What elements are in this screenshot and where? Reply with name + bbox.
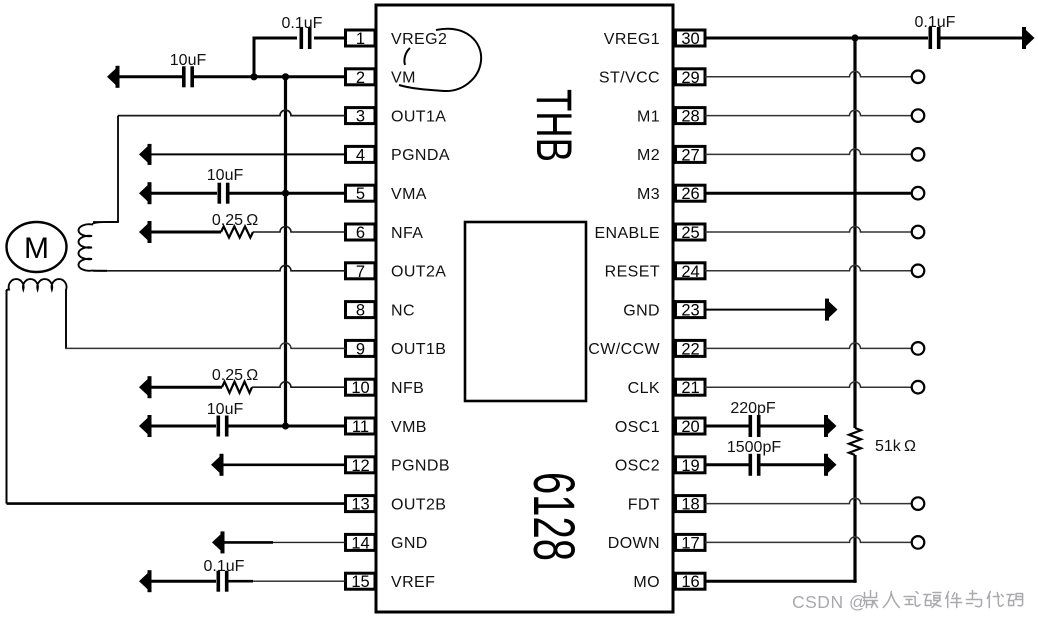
wire CLK with hop	[705, 382, 912, 388]
pin box 18	[676, 496, 706, 514]
ground G11 (pin23 GND)	[825, 299, 838, 321]
IC U1 THB6128 body	[376, 5, 673, 612]
pin box 17	[676, 534, 706, 552]
svg-text:NFA: NFA	[391, 225, 423, 242]
capacitor C1 0.1uF	[300, 27, 312, 49]
watermark glyph 件	[946, 592, 962, 608]
svg-text:13: 13	[351, 496, 369, 514]
svg-text:27: 27	[681, 146, 699, 164]
wire M3 plain crossing to terminal	[705, 192, 912, 195]
svg-text:10uF: 10uF	[207, 401, 244, 418]
wire G9 to C5	[152, 580, 217, 583]
junction node VMB / VM rail bottom	[282, 422, 289, 429]
wire coil B right vertical	[65, 289, 67, 348]
terminal CW/CCW	[912, 342, 925, 355]
svg-text:0.1uF: 0.1uF	[282, 15, 323, 32]
svg-text:6128: 6128	[521, 472, 586, 561]
ground G12 (OSC1 cap)	[824, 415, 837, 437]
svg-text:GND: GND	[623, 302, 660, 319]
wire coil B left vertical	[6, 290, 8, 504]
wire VM vertical rail	[284, 77, 287, 426]
pin box 7	[346, 263, 376, 281]
motor M1 circle	[7, 222, 67, 272]
wire C7 to ground G12	[761, 425, 825, 428]
annotation arc loop around VREG2/VM	[399, 29, 481, 91]
watermark glyph 嵌	[864, 591, 878, 608]
wire GND pin23 to ground	[705, 309, 825, 311]
wire M2 with hop over right rail	[705, 149, 912, 155]
wire G4 to R1	[152, 231, 222, 234]
pin box 20	[676, 418, 706, 436]
pin box 2	[346, 69, 376, 87]
wire OSC2 to C8	[705, 463, 749, 466]
svg-text:CLK: CLK	[628, 380, 660, 397]
wire DOWN with hop	[705, 537, 912, 543]
pin box 9	[346, 340, 376, 358]
wire ST/VCC with hop over right rail	[705, 71, 912, 77]
wire C4 to pin11 VMB	[229, 425, 346, 428]
pin box 13	[346, 496, 376, 514]
svg-text:M1: M1	[637, 108, 660, 125]
pin box 11	[346, 418, 376, 436]
ground G13 (OSC2 cap)	[824, 454, 837, 476]
svg-text:26: 26	[681, 185, 699, 203]
wire PGNDA to ground	[152, 153, 346, 155]
pin box 6	[346, 224, 376, 242]
wire PGNDB to ground	[224, 463, 346, 466]
ground G1 (VM decoupling)	[107, 66, 120, 88]
pin box 22	[676, 340, 706, 358]
pin box 8	[346, 302, 376, 320]
pin box 24	[676, 263, 706, 281]
svg-text:VMB: VMB	[391, 419, 427, 436]
ground G7 (PGNDB)	[211, 454, 224, 476]
svg-text:RESET: RESET	[605, 264, 660, 281]
wire GND thin part	[273, 541, 346, 543]
wire C5 to pin15 VREF	[253, 580, 346, 582]
svg-text:4: 4	[356, 146, 365, 164]
wire right vertical rail lower	[853, 455, 856, 583]
wire OSC1 to C7	[705, 425, 749, 428]
svg-text:CSDN @: CSDN @	[792, 592, 867, 612]
svg-text:18: 18	[681, 496, 699, 514]
svg-text:20: 20	[681, 418, 699, 436]
pin box 14	[346, 534, 376, 552]
svg-text:21: 21	[681, 379, 699, 397]
wire coil A bottom hook	[93, 270, 107, 272]
ground G6 (VMB cap)	[139, 415, 152, 437]
svg-text:VMA: VMA	[391, 186, 427, 203]
svg-text:PGNDB: PGNDB	[391, 458, 450, 475]
svg-text:22: 22	[681, 340, 699, 358]
terminal ENABLE	[912, 226, 925, 239]
wire MO to right rail corner	[705, 580, 857, 583]
watermark glyph 代	[987, 592, 1003, 608]
svg-text:0.1uF: 0.1uF	[915, 14, 956, 31]
pin box 10	[346, 379, 376, 397]
resistor R1 0.25ohm	[221, 226, 253, 237]
wire C3 to pin5 VMA	[230, 192, 346, 195]
svg-text:30: 30	[681, 30, 699, 48]
svg-text:OUT1A: OUT1A	[391, 108, 446, 125]
terminal DOWN	[912, 536, 925, 549]
wire M1 with hop over right rail	[705, 110, 912, 115]
svg-text:DOWN: DOWN	[608, 535, 660, 552]
pin box 23	[676, 302, 706, 320]
watermark glyph 与	[967, 591, 982, 607]
wire OUT1A vertical to coil A	[117, 116, 119, 222]
svg-text:5: 5	[356, 185, 365, 203]
pin box 15	[346, 573, 376, 591]
wire C6 to ground G10	[941, 37, 1023, 40]
wire G5 to R2	[152, 386, 223, 389]
capacitor C6 0.1uF	[929, 27, 941, 49]
capacitor C2 10uF	[182, 66, 194, 87]
wire coil A top hook	[93, 221, 119, 223]
svg-text:0.25 Ω: 0.25 Ω	[212, 367, 258, 384]
pin box 12	[346, 457, 376, 475]
ground G9 (VREF cap)	[139, 570, 152, 592]
svg-text:12: 12	[351, 457, 369, 475]
svg-text:M2: M2	[637, 147, 660, 164]
pin box 16	[676, 573, 706, 591]
svg-text:10: 10	[351, 379, 369, 397]
svg-text:9: 9	[356, 340, 365, 358]
svg-text:MO: MO	[633, 574, 660, 591]
pin box 26	[676, 185, 706, 203]
svg-text:8: 8	[356, 302, 365, 320]
wire FDT with hop	[705, 498, 912, 504]
svg-text:GND: GND	[391, 535, 428, 552]
ground G8 (signal GND)	[212, 531, 225, 553]
capacitor C4 10uF	[217, 416, 229, 437]
pin box 19	[676, 457, 706, 475]
capacitor C3 10uF	[218, 183, 230, 204]
svg-text:28: 28	[681, 108, 699, 126]
svg-text:220pF: 220pF	[730, 400, 776, 417]
svg-text:OSC2: OSC2	[615, 458, 660, 475]
pin box 30	[676, 30, 706, 48]
junction node VM / C1 branch	[250, 73, 257, 80]
pin box 5	[346, 185, 376, 203]
wire OUT2A with hop over VM rail	[106, 265, 346, 271]
svg-text:16: 16	[681, 573, 699, 591]
svg-text:0.1uF: 0.1uF	[204, 558, 245, 575]
svg-text:24: 24	[681, 263, 699, 281]
wire VREG1 to C6	[705, 37, 928, 40]
capacitor C5 0.1uF	[217, 571, 229, 592]
svg-text:NC: NC	[391, 302, 415, 319]
svg-text:NFB: NFB	[391, 380, 424, 397]
svg-text:10uF: 10uF	[170, 52, 207, 69]
svg-text:ST/VCC: ST/VCC	[599, 70, 660, 87]
wire C1 to branch corner	[254, 37, 297, 40]
svg-text:ENABLE: ENABLE	[594, 225, 660, 242]
pin box 3	[346, 108, 376, 126]
svg-text:VM: VM	[391, 70, 416, 87]
wire OUT1B with hop over VM rail	[65, 343, 346, 349]
watermark glyph 码	[1007, 594, 1023, 606]
svg-text:15: 15	[351, 573, 369, 591]
svg-text:OUT2A: OUT2A	[391, 264, 446, 281]
wire right vertical rail upper	[853, 38, 856, 428]
wire OUT2B long run	[7, 502, 346, 505]
svg-text:10uF: 10uF	[207, 167, 244, 184]
svg-text:19: 19	[681, 457, 699, 475]
junction node VMA / VM rail	[282, 190, 289, 197]
pin box 27	[676, 146, 706, 164]
ground G3 (VMA cap)	[139, 182, 152, 204]
resistor R2 0.25ohm	[222, 382, 252, 393]
wire OUT1A with hop over VM rail	[118, 110, 346, 115]
terminal M2	[912, 148, 925, 161]
pin box 21	[676, 379, 706, 397]
svg-text:23: 23	[681, 302, 699, 320]
wire R1 to pin6 NFA with hop	[253, 227, 346, 232]
pin box 4	[346, 146, 376, 164]
ground G5 (NFB)	[139, 376, 152, 398]
svg-text:7: 7	[356, 263, 365, 281]
wire branch vertical to VM net	[253, 37, 256, 77]
svg-text:25: 25	[681, 224, 699, 242]
ground G10 (VREG1 cap)	[1022, 27, 1035, 49]
inductor L1 motor phase A coil	[79, 222, 118, 271]
resistor R3 51k	[849, 428, 861, 455]
svg-text:1500pF: 1500pF	[727, 439, 781, 456]
wire G1 to C2	[120, 75, 183, 78]
svg-text:VREG2: VREG2	[391, 31, 447, 48]
terminal M3	[912, 187, 925, 200]
svg-text:OUT1B: OUT1B	[391, 341, 446, 358]
wire R2 to pin10 NFB with hop	[252, 382, 346, 388]
junction node VREG1 / right rail	[851, 34, 858, 41]
svg-text:6: 6	[356, 224, 365, 242]
wire pin1 to C1	[314, 37, 346, 40]
svg-text:29: 29	[681, 69, 699, 87]
svg-text:VREF: VREF	[391, 574, 435, 591]
inductor L2 motor phase B coil	[7, 279, 67, 291]
svg-text:PGNDA: PGNDA	[391, 147, 450, 164]
wire G3 to C3	[152, 192, 218, 195]
watermark glyph 硬	[924, 593, 941, 608]
wire CW/CCW with hop	[705, 343, 912, 349]
watermark glyph 式	[904, 592, 920, 607]
svg-text:17: 17	[681, 534, 699, 552]
ground G4 (NFA)	[139, 221, 152, 243]
svg-text:2: 2	[356, 69, 365, 87]
pin box 29	[676, 69, 706, 87]
svg-text:M: M	[24, 232, 49, 265]
IC U1 inner block rectangle	[465, 222, 586, 401]
terminal RESET	[912, 265, 925, 278]
wire G6 to C4	[152, 425, 217, 428]
wire C8 to ground G13	[761, 463, 825, 466]
ground G2 (PGNDA)	[139, 144, 152, 165]
svg-text:1: 1	[356, 30, 365, 48]
wire GND thick part	[225, 541, 274, 544]
terminal CLK	[912, 381, 925, 394]
svg-text:14: 14	[351, 534, 369, 552]
terminal ST/VCC	[912, 71, 925, 84]
wire C2 to pin2 VM	[194, 75, 346, 78]
wire C5 thick part	[229, 580, 254, 583]
svg-text:11: 11	[352, 418, 369, 436]
pin box 28	[676, 108, 706, 126]
svg-text:VREG1: VREG1	[604, 31, 660, 48]
capacitor C7 220pF	[749, 415, 761, 437]
svg-text:M3: M3	[637, 186, 660, 203]
pin box 1	[346, 30, 376, 48]
svg-text:OUT2B: OUT2B	[391, 496, 446, 513]
svg-text:CW/CCW: CW/CCW	[588, 341, 660, 358]
svg-text:THB: THB	[526, 89, 582, 162]
svg-text:FDT: FDT	[628, 496, 660, 513]
terminal FDT	[912, 497, 925, 510]
svg-text:3: 3	[356, 108, 365, 126]
wire RESET with hop over right rail	[705, 265, 912, 271]
svg-text:51k Ω: 51k Ω	[875, 438, 916, 455]
svg-text:OSC1: OSC1	[615, 419, 660, 436]
watermark glyph 入	[883, 592, 899, 608]
pin box 25	[676, 224, 706, 242]
svg-text:0.25 Ω: 0.25 Ω	[212, 212, 258, 229]
terminal M1	[912, 109, 925, 122]
capacitor C8 1500pF	[749, 454, 761, 476]
junction node VM rail top	[282, 73, 289, 80]
wire ENABLE with hop over right rail	[705, 227, 912, 232]
